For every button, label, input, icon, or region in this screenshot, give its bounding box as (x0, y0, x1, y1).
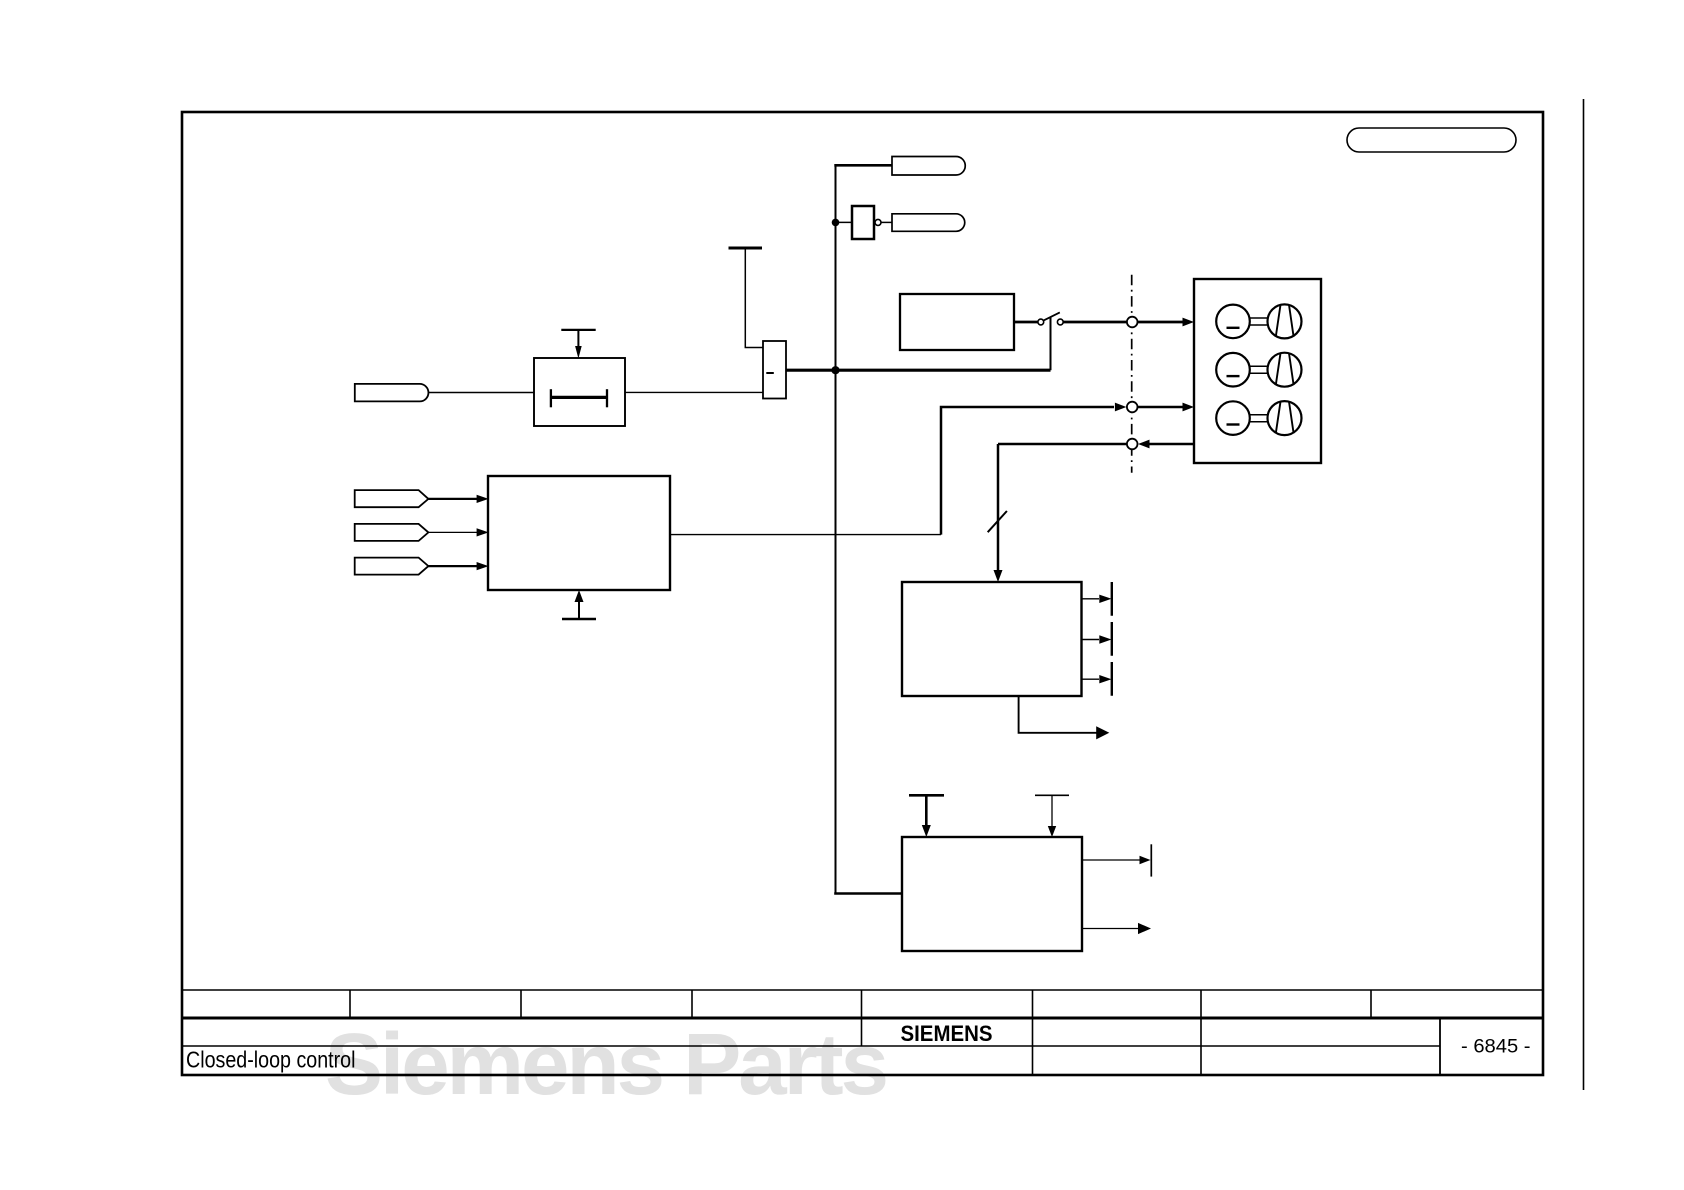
shaft 2 (1250, 366, 1268, 373)
title block divider a (349, 990, 351, 1018)
bus width slash mark (988, 511, 1007, 532)
inverter bubble (875, 219, 881, 225)
title block divider g (1370, 990, 1372, 1018)
svg-text:- 6845 -: - 6845 - (1461, 1037, 1531, 1058)
title block divider f (1200, 990, 1202, 1075)
switch blade (1043, 312, 1059, 320)
wire tag to limiter (428, 392, 534, 394)
setpoint tag (355, 384, 429, 402)
motor group box (1194, 279, 1321, 463)
arrow into circle 2 (1115, 403, 1127, 412)
svg-text:SIEMENS: SIEMENS (901, 1021, 993, 1046)
signal tag X2 (892, 214, 965, 232)
fan 3 (1268, 401, 1302, 435)
motor M2 (1216, 353, 1250, 387)
title block divider b (520, 990, 522, 1018)
processing block (488, 476, 670, 590)
sensor output arrow 3 (1082, 675, 1112, 683)
dashed interface bar (1111, 582, 1113, 696)
junction dot on bus (831, 366, 839, 374)
wire control block to contact a (1014, 321, 1038, 324)
title block divider d (861, 990, 863, 1046)
fan 1 (1268, 304, 1302, 338)
wire feedback rise (941, 407, 1114, 535)
bus elbow into box2 (836, 892, 903, 893)
T arrow 2 into box2 (1035, 795, 1069, 837)
input arrow C (428, 562, 488, 570)
wire summing output (786, 369, 1051, 372)
page border frame (182, 112, 1543, 1075)
inverter block (852, 206, 874, 239)
wire circle2 to motor box with arrow (1138, 403, 1195, 412)
control block 2 (902, 837, 1082, 951)
processing block output wire (670, 534, 941, 536)
fan 2 (1268, 353, 1302, 387)
wire circle1 to motor box with arrow (1138, 318, 1195, 327)
svg-text:Closed-loop control: Closed-loop control (186, 1047, 356, 1073)
title block divider c (691, 990, 693, 1018)
wire bus top to tag X1 (834, 164, 892, 167)
wire T stem to summing point (745, 248, 763, 348)
wire circle 3 to tacho drop (998, 443, 1127, 446)
interface circle 3 (1127, 439, 1138, 450)
T arrow below processing block (562, 590, 596, 619)
shaft 3 (1250, 415, 1268, 422)
limiter block (534, 358, 625, 426)
input tag C (355, 558, 429, 575)
switch contact a (1038, 319, 1044, 325)
wire motor box to circle 3 with arrow left (1138, 440, 1194, 449)
dash-dot boundary line (1131, 275, 1133, 473)
sensor output arrow 1 (1082, 595, 1112, 603)
summing box (763, 341, 786, 399)
reference potential T bar (729, 247, 763, 250)
wire bubble to tag X2 (881, 221, 892, 223)
wire contact b to interface circle 1 (1063, 321, 1126, 324)
signal tag X1 (892, 157, 965, 176)
top right label pill (1347, 128, 1516, 152)
junction dot at inverter input (832, 219, 840, 227)
switch contact b (1057, 319, 1063, 325)
interface circle 2 (1127, 402, 1138, 413)
interface circle 1 (1127, 317, 1138, 328)
title block divider e (1032, 990, 1034, 1075)
box2 output 1 with tick (1082, 844, 1151, 876)
box2 output 2 arrow (1082, 923, 1151, 934)
limiter symbol (551, 389, 607, 407)
wire from switch down to output wire (1050, 317, 1052, 371)
wire junction to inverter (836, 221, 853, 223)
shaft 1 (1250, 318, 1268, 325)
T arrow 1 into box2 (909, 795, 944, 837)
sensor bottom output arrow (1019, 696, 1110, 739)
title block row line thick (182, 1017, 1543, 1020)
input tag B (355, 524, 429, 541)
input tag A (355, 490, 429, 507)
input arrow A (428, 495, 488, 503)
limiter parameter T arrow (561, 330, 595, 359)
title block row line lower (182, 1045, 1440, 1047)
motor M3 (1216, 401, 1250, 435)
sensor output arrow 2 (1082, 635, 1112, 643)
wire limiter to summing box (625, 391, 763, 393)
svg-text:Siemens Parts: Siemens Parts (325, 1016, 889, 1113)
vertical drop to sensor box with arrow (994, 444, 1003, 582)
main vertical bus wire (835, 164, 837, 894)
summing box minus sign (766, 372, 774, 374)
control block (900, 294, 1014, 350)
motor M1 (1216, 305, 1250, 339)
input arrow B (428, 528, 488, 536)
title block divider h (1439, 1018, 1441, 1075)
sheet edge line (1583, 99, 1585, 1090)
title block row line top (182, 989, 1543, 991)
sensor block box1 (902, 582, 1082, 696)
